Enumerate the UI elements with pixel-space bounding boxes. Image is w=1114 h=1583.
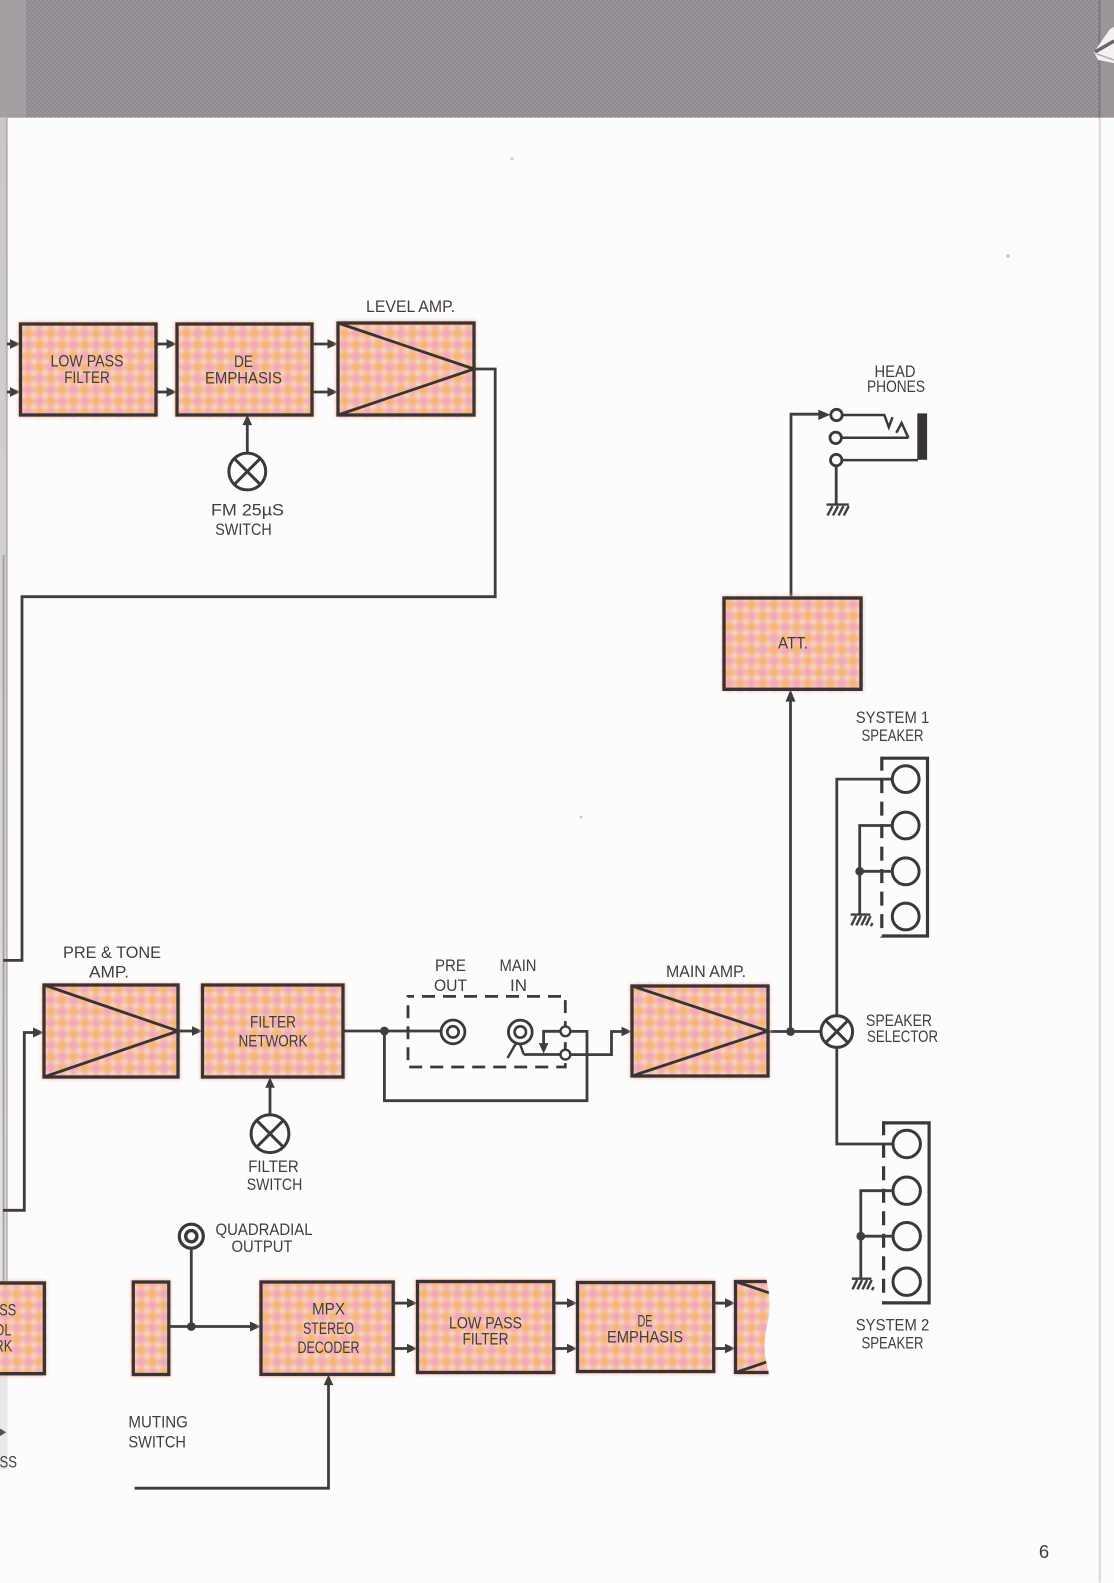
right page edge faint line below band [1099,118,1101,1583]
wire bypass loop under dashed box [384,1031,587,1101]
svg-text:OUTPUT: OUTPUT [232,1237,293,1256]
svg-text:FILTER: FILTER [64,368,110,387]
block filter network [201,983,346,1079]
arrowhead de-amp b2 [725,1344,736,1354]
svg-text:ATT.: ATT. [778,634,808,653]
svg-text:NETWORK: NETWORK [239,1032,309,1051]
arrowhead fm switch [243,415,253,426]
svg-text:FILTER: FILTER [248,1157,299,1176]
arrowhead lpf-de 2 [167,387,178,397]
system 1 jack circle 2 [892,812,919,839]
page right edge line in band [1098,0,1100,118]
arrowhead into mpx [250,1322,261,1332]
left page edge strip [0,118,8,1470]
ground symbol system2 [852,1279,874,1291]
wire system2 circle2 to ground junction [861,1191,893,1237]
svg-text:MAIN: MAIN [500,956,537,975]
system 2 jack circle 4 [893,1268,920,1295]
block partial amp triangle (cut by page edge) [734,1278,781,1376]
svg-text:SPEAKER: SPEAKER [862,726,924,745]
jumper terminal circle bottom [561,1050,571,1060]
wire bottom contact to jack sleeve [842,459,918,462]
arrowhead into headphone contact [818,410,830,420]
arrowhead into pre tone amp [33,1028,44,1038]
arrowhead input 2 [10,387,21,397]
arrowhead lpf-de 1 [167,339,178,349]
block att [722,596,863,691]
block narrow (cut) [131,1280,171,1377]
small speck artifacts [511,158,1010,819]
svg-text:6: 6 [1039,1541,1049,1562]
cut arrowhead fragment at page edge [0,1429,6,1437]
system 2 jack circle 1 [893,1130,920,1157]
svg-text:MAIN AMP.: MAIN AMP. [666,962,746,981]
svg-text:IN: IN [510,976,527,995]
arrowhead lpf-de b2 [567,1344,578,1354]
svg-text:FM 25µS: FM 25µS [211,501,284,520]
wire att top to headphone jack [791,414,819,598]
svg-text:PRE: PRE [435,956,466,975]
filter switch circle [251,1115,289,1153]
system 1 jack circle 4 [892,903,919,930]
wire bottom contact to ground [835,466,838,504]
headphone jack sleeve bar [917,413,927,459]
wire quadradial down to junction [190,1248,193,1327]
block pre tone amp triangle [42,983,180,1079]
wire jumper link from top circle [544,1031,561,1044]
system 2 jack circle 2 [893,1177,920,1204]
svg-text:SWITCH: SWITCH [215,520,272,539]
wire de emphasis to output amp (cut) [714,1303,726,1348]
svg-text:SWITCH: SWITCH [128,1432,186,1451]
junction dot quadradial [187,1322,196,1331]
wire lpf to de emphasis bottom [554,1303,568,1348]
arrowhead mpx-lpf 2 [407,1344,418,1354]
block low pass filter (top) [19,322,159,417]
system 1 jack panel [882,757,928,938]
wire main amp output to speaker selector [768,1030,821,1033]
speaker selector switch circle [821,1016,853,1048]
block partial left (cut at page edge) [0,1281,46,1376]
junction dot system2 ground [856,1232,865,1241]
svg-text:STEREO: STEREO [303,1319,354,1338]
svg-text:SPEAKER: SPEAKER [862,1334,924,1353]
wire speaker selector up to system1 top jack [837,779,892,1016]
wire entry from page edge up into pre tone amp [3,1033,33,1211]
ground symbol system1 [851,915,873,927]
wire narrow block to mpx decoder [169,1325,251,1328]
main in jack legs [508,1043,524,1059]
switch caret on middle contact [896,423,908,438]
wire de emphasis to level amp [312,344,329,392]
junction dot before pre out [380,1027,389,1036]
svg-text:FILTER: FILTER [250,1013,296,1032]
svg-text:EMPHASIS: EMPHASIS [205,369,282,388]
arrowhead filter switch [265,1077,275,1088]
block main amp triangle [630,984,770,1078]
headphone contact top circle [831,409,842,420]
block de emphasis (top) [175,322,314,417]
svg-text:FILTER: FILTER [463,1330,509,1349]
wire system2 junction to ground [859,1236,862,1277]
svg-text:LEVEL AMP.: LEVEL AMP. [366,297,455,316]
wire main in to jumper bottom circle [524,1053,561,1056]
pre out jack circle [441,1020,465,1044]
wire speaker selector down to system2 top jack [837,1047,893,1144]
junction dot system1 ground [855,867,864,876]
svg-text:DECODER: DECODER [298,1338,360,1357]
wire filter network to pre out [343,1030,441,1033]
junction dot at selector branch [786,1027,795,1036]
system 2 jack circle 3 [893,1223,920,1250]
arrowhead into att bottom [786,690,796,702]
arrowhead into filter network [192,1026,203,1036]
ground symbol headphones [827,505,849,516]
arrowhead de-amp b1 [725,1298,736,1308]
system 2 jack panel [884,1121,930,1304]
system 1 jack circle 1 [892,766,919,793]
svg-text:PHONES: PHONES [867,377,925,396]
system 1 jack circle 3 [892,858,919,885]
wire middle contact [841,437,908,440]
svg-text:MPX: MPX [312,1300,345,1319]
jumper terminal circle top [561,1026,571,1036]
wire feedback from level amp down and left [3,369,495,960]
wire junction up into att [789,700,792,1032]
quadradial output connector [179,1224,203,1248]
svg-text:PRE & TONE: PRE & TONE [63,943,161,962]
svg-text:SS: SS [0,1453,17,1472]
svg-text:SELECTOR: SELECTOR [867,1027,938,1046]
gray header band right sliver [1099,0,1114,118]
svg-text:SYSTEM 2: SYSTEM 2 [856,1316,930,1335]
svg-text:SWITCH: SWITCH [247,1175,303,1194]
main in jack circle [508,1020,532,1044]
svg-text:RK: RK [0,1337,13,1356]
svg-text:SS: SS [0,1301,16,1320]
left page edge crease line [3,555,5,1290]
wire fm switch arrow up to de emphasis [246,421,249,453]
arrowhead jumper down [539,1043,549,1054]
wire low pass filter to de emphasis [156,344,168,392]
arrowhead mpx-lpf 1 [407,1298,418,1308]
wire system1 circle2 to ground junction [860,826,893,872]
wire input arrows into low pass filter [7,344,12,392]
fm 25us switch circle [229,453,266,490]
arrowhead into main amp [622,1027,633,1037]
arrowhead de-level 1 [328,339,339,349]
arrowhead lpf-de b1 [567,1298,578,1308]
arrowhead input 1 [10,339,21,349]
wire top contact with switch V [842,415,892,427]
headphone contact bottom circle [831,454,842,465]
dashed box pre out main in [408,996,565,1067]
arrowhead into mpx bottom [324,1375,334,1386]
svg-text:MUTING: MUTING [128,1413,188,1432]
gray header band [0,0,1100,118]
left page edge inner line [6,118,8,1288]
wire mpx to low pass filter bottom [393,1303,408,1348]
arrowhead de-level 2 [328,387,339,397]
wire jumper bottom to main amp [570,1032,622,1055]
wire muting switch into mpx bottom [135,1384,329,1488]
block low pass filter (bottom) [416,1280,556,1375]
page corner tear top right [1094,27,1114,63]
block mpx stereo decoder [259,1280,395,1376]
wire system1 junction to ground [858,871,861,913]
block level amp U-triangle [336,321,476,417]
svg-text:EMPHASIS: EMPHASIS [607,1328,683,1347]
wire filter switch arrow up to filter network [269,1087,272,1115]
svg-text:AMP.: AMP. [89,963,129,982]
svg-text:OUT: OUT [434,976,467,995]
block de emphasis (bottom) [576,1281,716,1374]
gray header band lighter left edge [0,0,26,118]
headphone contact middle circle [830,432,841,443]
wire pre tone amp to filter network [178,1030,193,1033]
svg-text:SYSTEM 1: SYSTEM 1 [856,708,930,727]
